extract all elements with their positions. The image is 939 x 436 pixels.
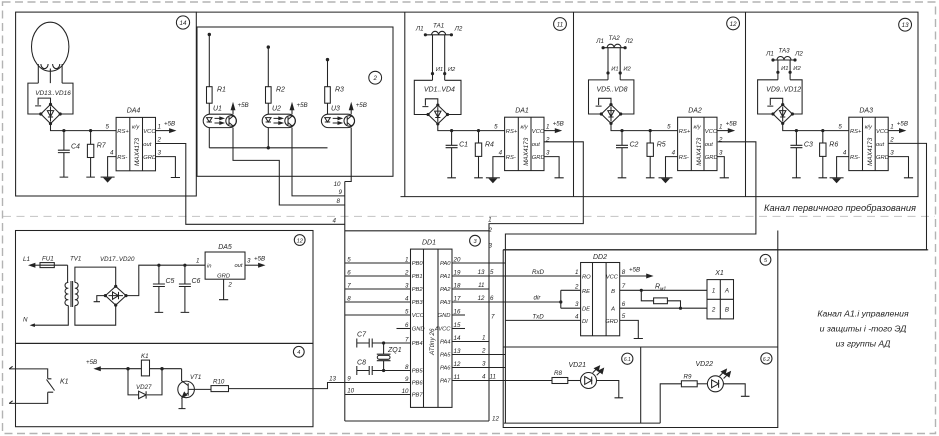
svg-text:И1: И1: [436, 67, 443, 73]
svg-text:6: 6: [347, 270, 351, 277]
wire U2 cathode: [267, 128, 269, 148]
svg-text:in: in: [207, 264, 212, 270]
svg-text:C2: C2: [630, 142, 639, 149]
svg-text:4: 4: [672, 149, 676, 156]
svg-text:3: 3: [247, 258, 251, 265]
svg-text:4: 4: [843, 149, 847, 156]
svg-text:L1: L1: [23, 256, 30, 263]
node 6.1 (block label): [622, 353, 633, 364]
svg-text:8: 8: [347, 296, 351, 303]
svg-text:VCC: VCC: [412, 313, 425, 319]
svg-text:Л1: Л1: [595, 38, 604, 45]
svg-text:out: out: [234, 263, 242, 269]
ground (block 2): [659, 178, 673, 184]
wire bus block 3: [783, 123, 849, 130]
block 5 box (RS-485 interface): [503, 250, 928, 428]
svg-text:И1: И1: [781, 66, 788, 72]
transformer TA1: [425, 31, 451, 80]
svg-text:4: 4: [405, 296, 409, 303]
svg-text:PA6: PA6: [440, 366, 451, 372]
power +5V arrow U2: [290, 104, 294, 115]
wire DA3 out (net 3): [503, 143, 926, 249]
wire net 2 to PA5: [452, 354, 505, 356]
wire DA4 out (net 4): [156, 144, 345, 225]
led VD21: [568, 366, 623, 398]
terminal L1 arrow: [30, 263, 40, 267]
svg-text:RS+: RS+: [506, 129, 518, 135]
svg-text:C6: C6: [192, 278, 201, 285]
wire net 3 to PA6: [452, 367, 505, 369]
node 5 (block label): [760, 254, 771, 265]
svg-text:PA2: PA2: [440, 287, 451, 293]
svg-text:9: 9: [339, 189, 343, 196]
svg-text:MAX4173: MAX4173: [523, 137, 530, 166]
svg-text:16: 16: [454, 309, 461, 316]
svg-text:U3: U3: [331, 106, 340, 113]
power +5V arrow DA3 pin1: [888, 129, 905, 133]
wire MCU pin10: [345, 394, 411, 396]
resistor R2: [266, 87, 272, 104]
chassis hook (block 1): [422, 99, 437, 107]
svg-text:VD9..VD12: VD9..VD12: [766, 87, 801, 94]
svg-text:PA1: PA1: [440, 274, 451, 280]
relay contact K1: [9, 366, 54, 403]
svg-text:VD27: VD27: [136, 384, 152, 391]
node junction C4: [62, 129, 65, 132]
svg-text:1: 1: [196, 258, 199, 265]
svg-text:C1: C1: [459, 142, 468, 149]
svg-text:5: 5: [405, 309, 409, 316]
wire RxD (net 13-5): [452, 275, 581, 277]
svg-text:ТА1: ТА1: [433, 22, 444, 29]
wire rectifier output rail: [126, 265, 205, 295]
svg-text:И2: И2: [448, 67, 456, 73]
svg-text:C5: C5: [166, 278, 175, 285]
svg-text:7: 7: [405, 337, 409, 344]
resistor R8: [552, 378, 568, 384]
svg-text:RS-: RS-: [679, 155, 689, 161]
svg-text:B: B: [725, 307, 729, 314]
svg-text:Л2: Л2: [794, 51, 803, 58]
op-amp DA1 (MAX4173): [505, 117, 544, 170]
svg-text:5: 5: [347, 257, 351, 264]
node 11 (block label): [554, 18, 567, 31]
svg-text:GRD: GRD: [605, 319, 618, 325]
capacitor C3: [790, 131, 802, 178]
svg-text:14: 14: [454, 335, 461, 342]
wire secondary top: [75, 267, 116, 286]
optocoupler U1: [203, 114, 236, 127]
chassis hook (bridge VD17): [94, 296, 106, 302]
svg-text:Л2: Л2: [454, 25, 463, 32]
node terminal U3: [326, 58, 329, 61]
svg-text:GND: GND: [412, 327, 425, 333]
svg-text:3: 3: [890, 149, 894, 156]
wire DA3 GRD pin3: [888, 157, 913, 178]
svg-text:RS+: RS+: [850, 129, 862, 135]
svg-text:GRD: GRD: [876, 155, 889, 161]
block 12 bottom box (power supply): [16, 231, 314, 344]
node 4 (block label): [293, 346, 304, 357]
svg-text:к/у: к/у: [132, 125, 140, 131]
svg-text:VD22: VD22: [695, 361, 713, 368]
svg-text:6.2: 6.2: [763, 357, 770, 363]
svg-text:+5В: +5В: [297, 102, 308, 109]
svg-text:VCC: VCC: [606, 275, 619, 281]
svg-text:C8: C8: [357, 360, 366, 367]
svg-text:VCC: VCC: [876, 129, 889, 135]
chassis hook (block 3): [767, 98, 782, 106]
power +5V arrow relay rail: [95, 367, 128, 371]
optocoupler U3: [321, 114, 354, 127]
svg-text:+5В: +5В: [86, 359, 97, 366]
svg-text:dir: dir: [534, 295, 542, 302]
resistor R1: [207, 87, 213, 104]
svg-text:1: 1: [405, 257, 408, 264]
rectifier bridge VD1..VD4: [414, 80, 461, 124]
svg-text:12: 12: [297, 238, 304, 244]
svg-text:6: 6: [405, 322, 409, 329]
wire net 13 to MCU: [229, 383, 345, 389]
svg-text:DA5: DA5: [218, 244, 232, 251]
svg-text:3: 3: [546, 149, 550, 156]
svg-text:9: 9: [347, 376, 351, 383]
wire net 4-11 to PA7 and R8: [452, 380, 552, 382]
capacitor C2: [616, 131, 628, 178]
wire MCU pin16 stub: [452, 314, 465, 316]
optocoupler U2: [262, 114, 295, 127]
svg-text:8: 8: [622, 269, 626, 276]
mcu DD1 (ATtiny 26): [411, 249, 453, 407]
resistor R6: [819, 131, 828, 178]
wire U1 anode feed: [208, 35, 210, 115]
svg-text:18: 18: [454, 283, 461, 290]
wire MCU pin15 stub: [452, 328, 465, 330]
wire MCU pin20 TxD feed: [452, 262, 505, 264]
svg-text:5: 5: [494, 124, 498, 131]
svg-text:+5В: +5В: [629, 266, 640, 273]
svg-text:1: 1: [158, 123, 161, 130]
svg-text:Канал первичного преобразовани: Канал первичного преобразования: [764, 203, 916, 213]
svg-text:R5: R5: [657, 142, 666, 149]
svg-text:DA1: DA1: [515, 107, 529, 114]
svg-text:C7: C7: [357, 332, 367, 339]
svg-text:VD17..VD20: VD17..VD20: [100, 256, 135, 263]
node 13 (block label): [899, 18, 912, 31]
svg-text:2: 2: [718, 136, 723, 143]
svg-text:GRD: GRD: [532, 155, 545, 161]
svg-text:DA4: DA4: [127, 108, 141, 115]
rectifier bridge VD13..VD16: [28, 83, 73, 124]
svg-text:R7: R7: [97, 143, 107, 150]
node junction R7: [89, 129, 92, 132]
svg-text:14: 14: [180, 20, 187, 27]
svg-text:1: 1: [575, 269, 578, 276]
svg-text:3: 3: [488, 243, 492, 250]
wire MCU pin6 GND stub: [397, 328, 411, 330]
wire net 11: [452, 288, 489, 290]
svg-text:R2: R2: [276, 87, 285, 94]
voltage regulator DA5: [205, 252, 245, 279]
chassis hook (block 2): [596, 98, 611, 106]
svg-text:N: N: [23, 317, 28, 324]
svg-text:R8: R8: [554, 370, 562, 377]
resistor R5: [646, 131, 655, 178]
svg-text:10: 10: [334, 181, 341, 188]
svg-text:FU1: FU1: [42, 256, 54, 263]
svg-text:K1: K1: [60, 379, 69, 386]
svg-text:DA2: DA2: [688, 107, 702, 114]
svg-text:out: out: [532, 142, 540, 148]
svg-text:И2: И2: [623, 67, 631, 73]
block 4 box (relay driver): [16, 343, 314, 426]
svg-text:PB5: PB5: [412, 369, 424, 375]
wire DA2 out (net 2): [505, 142, 756, 423]
svg-text:к/у: к/у: [694, 125, 702, 131]
rectifier bridge VD5..VD8: [589, 80, 634, 124]
block 6.1 / 6.2 divider lines: [503, 347, 778, 423]
wire MCU pin row 315 left: [345, 314, 411, 316]
svg-text:VCC: VCC: [532, 129, 545, 135]
resistor R9: [681, 381, 697, 387]
svg-text:PB2: PB2: [412, 287, 424, 293]
svg-text:RS-: RS-: [117, 155, 127, 161]
wire MCU pin9: [345, 382, 411, 384]
wire net3 stub at block5 corner: [777, 231, 779, 250]
svg-text:7: 7: [491, 313, 495, 320]
resistor R7: [86, 131, 95, 178]
node 6.2 (block label): [761, 353, 772, 364]
svg-text:RE: RE: [582, 289, 590, 295]
wire bus block 2: [611, 123, 678, 130]
svg-text:9: 9: [405, 376, 409, 383]
svg-text:12: 12: [478, 295, 485, 302]
svg-text:3: 3: [482, 361, 486, 368]
svg-text:4: 4: [482, 374, 486, 381]
wire U1 cathode: [208, 128, 210, 148]
svg-text:2: 2: [889, 136, 894, 143]
wire primary bottom to N: [33, 306, 68, 326]
capacitor C5: [153, 265, 165, 312]
pin 4 wire RS- block 3: [837, 157, 849, 178]
svg-text:1: 1: [546, 123, 549, 130]
svg-text:DA3: DA3: [859, 107, 873, 114]
svg-text:GRD: GRD: [705, 155, 718, 161]
svg-text:2: 2: [711, 307, 716, 314]
wire dir (net 12-6): [452, 290, 581, 308]
node 12 bottom (block label): [294, 235, 305, 246]
chassis hook (block 14): [35, 98, 50, 106]
node 3 (block label): [470, 235, 481, 246]
svg-text:7: 7: [347, 283, 351, 290]
svg-text:11: 11: [557, 22, 563, 29]
wire MCU pin row 263 left: [345, 262, 411, 264]
connector X1: [707, 280, 734, 319]
svg-text:6: 6: [622, 301, 626, 308]
wire pin8 crystal: [384, 370, 411, 372]
pin 4 wire RS-: [108, 157, 117, 178]
svg-text:R10: R10: [213, 378, 225, 385]
svg-text:DD1: DD1: [422, 240, 436, 247]
svg-text:GRD: GRD: [217, 273, 230, 279]
wire net 12 bottom: [660, 384, 681, 423]
power +5V arrow U1: [231, 104, 235, 115]
power +5V arrow DA1 pin1: [544, 129, 561, 133]
svg-text:R6: R6: [829, 142, 838, 149]
svg-text:2: 2: [157, 136, 162, 143]
svg-text:1: 1: [719, 123, 722, 130]
svg-text:RxD: RxD: [532, 269, 545, 276]
svg-text:5: 5: [838, 124, 842, 131]
svg-text:PB7: PB7: [412, 393, 424, 399]
wire LED cathode bus: [209, 147, 327, 149]
pin 4 wire RS- block 2: [666, 157, 678, 178]
rectifier bridge VD9..VD12: [758, 80, 803, 124]
svg-text:DI: DI: [582, 319, 588, 325]
svg-text:8: 8: [405, 364, 409, 371]
svg-text:И1: И1: [611, 67, 618, 73]
svg-text:VT1: VT1: [190, 374, 201, 381]
wire U2 anode feed: [267, 47, 269, 114]
svg-text:20: 20: [453, 257, 461, 264]
transceiver DD2: [581, 263, 620, 336]
transformer TA2: [603, 44, 625, 80]
svg-text:10: 10: [347, 388, 354, 395]
svg-text:+5В: +5В: [238, 102, 249, 109]
capacitor C8: [357, 366, 384, 375]
power +5V arrow DA4 pin1: [156, 129, 175, 133]
svg-text:RS+: RS+: [679, 129, 691, 135]
svg-text:PA7: PA7: [440, 379, 451, 385]
wire pin7 crystal: [384, 342, 411, 344]
svg-text:U1: U1: [213, 106, 222, 113]
wire primary top: [67, 265, 69, 282]
wire TxD (net 7): [505, 319, 580, 321]
svg-text:PA5: PA5: [440, 353, 451, 359]
resistor R3: [325, 87, 331, 104]
svg-text:VD5..VD8: VD5..VD8: [596, 87, 627, 94]
wire DD2 GRD pin5: [620, 320, 643, 338]
transistor VT1: [178, 369, 211, 409]
svg-text:2: 2: [545, 136, 550, 143]
svg-text:к/у: к/у: [521, 125, 529, 131]
svg-text:11: 11: [490, 374, 496, 381]
svg-text:4: 4: [333, 217, 337, 224]
svg-text:10: 10: [402, 388, 409, 395]
node terminal U1: [208, 33, 211, 36]
svg-text:DE: DE: [582, 307, 590, 313]
node terminal U2: [267, 45, 270, 48]
transformer TA3: [773, 57, 795, 80]
svg-text:VD21: VD21: [568, 362, 586, 369]
wire U3 emitter (net 10): [345, 128, 351, 182]
top frame (blocks 11-13 outer): [196, 12, 918, 197]
relay coil K1: [141, 360, 149, 376]
power +5V arrow DD2 pin8: [620, 274, 652, 278]
wire DA1 out (net 1): [489, 142, 583, 421]
op-amp U DA4 (MAX4173): [116, 117, 155, 170]
svg-text:out: out: [705, 142, 713, 148]
wire net 1 to PA4: [452, 341, 489, 343]
svg-text:13: 13: [329, 376, 336, 383]
svg-text:GRD: GRD: [143, 155, 156, 161]
power +5V arrow U3: [349, 104, 353, 115]
resistor R10: [211, 386, 229, 392]
svg-text:4: 4: [575, 313, 579, 320]
svg-text:+5В: +5В: [897, 121, 908, 128]
resistor Rm1: [641, 290, 680, 308]
svg-text:K1: K1: [141, 353, 149, 360]
svg-text:1: 1: [488, 217, 491, 224]
svg-text:PA0: PA0: [440, 261, 451, 267]
svg-text:ТА2: ТА2: [609, 35, 621, 42]
wire secondary bottom: [75, 305, 116, 325]
svg-text:U2: U2: [272, 106, 281, 113]
svg-text:1: 1: [890, 123, 893, 130]
svg-text:1: 1: [712, 287, 715, 294]
wire DA4 GRD pin3: [156, 157, 181, 178]
svg-text:3: 3: [158, 149, 162, 156]
wire bus block 14: [51, 124, 117, 131]
node junction U2 cathode: [267, 146, 270, 149]
block 3 box (MCU): [345, 231, 489, 421]
svg-text:A: A: [610, 307, 615, 313]
svg-text:3: 3: [575, 301, 579, 308]
op-amp DA2 (MAX4173): [678, 117, 717, 170]
capacitor C7: [357, 339, 384, 348]
svg-text:RS-: RS-: [506, 155, 516, 161]
wire MCU pin row 302 left: [345, 301, 411, 303]
wire U1 emitter (net 8): [233, 128, 345, 205]
power +5V arrow DA5 pin3: [245, 263, 264, 267]
wire MCU pin row 289 left: [345, 288, 411, 290]
svg-text:13: 13: [478, 269, 485, 276]
svg-text:RS-: RS-: [850, 155, 860, 161]
fuse FU1: [40, 263, 68, 268]
svg-text:Л2: Л2: [624, 38, 633, 45]
diode VD27: [128, 369, 162, 399]
svg-text:A: A: [724, 287, 729, 294]
svg-text:5: 5: [622, 313, 626, 320]
svg-text:4: 4: [110, 150, 114, 157]
wire DA5 GRD pin2: [219, 279, 228, 300]
svg-text:MAX4173: MAX4173: [696, 137, 703, 166]
svg-text:+5В: +5В: [356, 102, 367, 109]
svg-text:GND: GND: [438, 313, 451, 319]
transformer TV1: [65, 281, 78, 307]
svg-text:+5В: +5В: [254, 255, 265, 262]
svg-text:Л1: Л1: [415, 25, 424, 32]
svg-text:PA4: PA4: [440, 340, 451, 346]
wire DA2 GRD pin3: [717, 157, 729, 178]
wire group bus vertical: [344, 182, 346, 395]
svg-text:19: 19: [454, 270, 461, 277]
wire relay rail: [128, 368, 182, 370]
svg-text:+5В: +5В: [553, 121, 564, 128]
svg-text:out: out: [876, 142, 884, 148]
node 2 (block label): [369, 71, 382, 84]
svg-text:VCC: VCC: [705, 129, 718, 135]
svg-text:PB4: PB4: [412, 341, 423, 347]
svg-text:R4: R4: [485, 142, 494, 149]
svg-text:7: 7: [622, 283, 626, 290]
rectifier bridge VD17..VD20: [105, 286, 126, 305]
svg-text:VD1..VD4: VD1..VD4: [424, 87, 455, 94]
svg-text:6.1: 6.1: [624, 357, 631, 363]
svg-text:из группы АД: из группы АД: [836, 339, 891, 349]
svg-text:2: 2: [574, 283, 579, 290]
svg-text:2: 2: [481, 348, 486, 355]
